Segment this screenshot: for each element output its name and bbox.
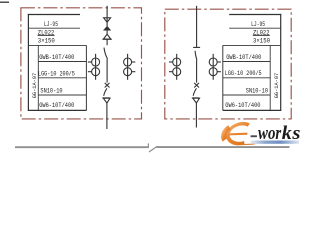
svg-text:GW6-10T/400: GW6-10T/400: [39, 102, 74, 110]
wire switch to breaker box2: [196, 60, 198, 83]
CT TA1a lower circle box1 left: [92, 68, 100, 76]
CT TA2a upper circle box2 left: [173, 58, 181, 66]
table box2 row line 4: [223, 77, 270, 79]
logo blue gradient bar: [251, 141, 300, 144]
breaker X mark box2: [194, 83, 199, 88]
svg-text:ZL022: ZL022: [253, 29, 270, 37]
svg-text:LJ-95: LJ-95: [44, 21, 58, 29]
CT TA2b vertical wire box2 right: [212, 54, 214, 80]
CT TA2a lower tick: [169, 71, 173, 73]
cabinet outline box 2 (dashed): [165, 9, 291, 119]
CT TA1a upper tick: [88, 61, 92, 63]
table box2 top edge: [229, 14, 281, 16]
table box2 bottom edge: [223, 109, 281, 111]
table box1 sidebar divider: [37, 45, 39, 110]
bus break slant: [149, 146, 157, 152]
svg-text:SN10-10: SN10-10: [40, 88, 62, 96]
svg-text:LGG-10 200/5: LGG-10 200/5: [225, 70, 262, 78]
table box1 left border: [27, 14, 29, 111]
wire main line box1 upper: [106, 6, 108, 27]
disconnector QS3 box2 contact bar: [193, 46, 200, 48]
disconnector QS1 box1 blade: [104, 48, 108, 59]
svg-text:LGG-10 200/5: LGG-10 200/5: [38, 71, 75, 79]
svg-text:ZL022: ZL022: [38, 29, 55, 37]
table box2 sidebar divider: [269, 45, 271, 110]
disconnector QS1 box1 contact triangle: [104, 34, 111, 39]
table box1 row line 2: [28, 44, 86, 46]
logo hyphen: [251, 135, 257, 137]
svg-text:GG-1A-07: GG-1A-07: [273, 73, 280, 99]
table box2 left border (lower section): [222, 45, 224, 110]
disconnector QS2 box1 contact bar: [102, 97, 109, 99]
CT TA2a upper tick: [169, 61, 173, 63]
breaker X mark box1: [105, 83, 110, 88]
svg-text:LJ-95: LJ-95: [251, 21, 265, 29]
table box1 row line 1: [28, 27, 80, 29]
table box1 top edge: [28, 14, 80, 16]
CT TA1a vertical wire box1 left: [95, 54, 97, 80]
svg-text:GWB-10T/400: GWB-10T/400: [39, 54, 74, 62]
cable terminal lower triangle box1 (filled): [104, 27, 110, 30]
CT TA1b lower circle box1 right: [124, 68, 132, 76]
CT TA1b vertical wire box1 right: [127, 54, 129, 80]
disconnector QS2 box1 contact triangle: [103, 98, 110, 103]
table box1 row line 3: [38, 61, 86, 63]
wire stub top-left: [0, 1, 9, 3]
wire main line box1 lower: [106, 103, 108, 129]
CT TA2b lower tick: [217, 71, 221, 73]
bus right segment: [157, 146, 290, 148]
logo e crossbar: [228, 133, 248, 136]
wire switch1 to breaker box1: [106, 59, 108, 83]
CT TA1b upper circle box1 right: [124, 58, 132, 66]
svg-text:SN10-10: SN10-10: [246, 88, 268, 96]
wire main line box2 upper: [196, 6, 198, 47]
CT TA1b upper tick: [131, 61, 135, 63]
svg-text:3×150: 3×150: [253, 38, 270, 46]
bus left segment: [15, 146, 149, 148]
logo letter e (orange crescent): [222, 124, 250, 144]
disconnector QS3 box2 blade: [195, 51, 197, 60]
cabinet outline box 1 (dashed): [21, 8, 142, 119]
wire main line box2 lower: [195, 103, 197, 128]
disconnector QS1 box1 contact bar: [102, 38, 111, 40]
table box1 row line 4: [38, 77, 86, 79]
svg-text:GWB-10T/400: GWB-10T/400: [226, 54, 261, 62]
table box2 row line 2: [223, 44, 281, 46]
table box2 row line 1: [229, 27, 281, 29]
svg-text:GG-1A-07: GG-1A-07: [31, 73, 38, 99]
table box1 row line 5: [38, 94, 86, 96]
table box1 bottom edge: [28, 109, 87, 111]
CT TA1a lower tick: [88, 71, 92, 73]
CT TA2b upper tick: [217, 61, 221, 63]
table box2 row line 5: [223, 94, 270, 96]
disconnector QS4 box2 contact triangle: [193, 98, 200, 103]
disconnector QS2 box1 blade: [104, 88, 107, 96]
CT TA2b lower circle box2 right: [209, 68, 217, 76]
CT TA1b lower tick: [131, 71, 135, 73]
disconnector QS4 box2 contact bar: [192, 97, 199, 99]
CT TA2a lower circle box2 left: [173, 68, 181, 76]
CT TA2b upper circle box2 right: [209, 58, 217, 66]
table box2 row line 3: [223, 61, 270, 63]
bus break tick: [147, 143, 149, 147]
disconnector QS4 box2 blade: [193, 88, 196, 96]
svg-text:3×150: 3×150: [38, 38, 55, 46]
cable terminal upper triangle box1: [104, 18, 111, 22]
CT TA2a vertical wire box2 left: [176, 54, 178, 80]
wire below contact box1: [106, 39, 108, 45]
CT TA1a upper circle box1 left: [92, 58, 100, 66]
svg-text:GW6-10T/400: GW6-10T/400: [225, 102, 260, 110]
table box2 right border: [280, 14, 282, 111]
logo swoosh tail (orange): [240, 143, 255, 145]
wire to switch 1 box1: [106, 30, 108, 34]
table box1 right border (lower section): [85, 45, 87, 110]
